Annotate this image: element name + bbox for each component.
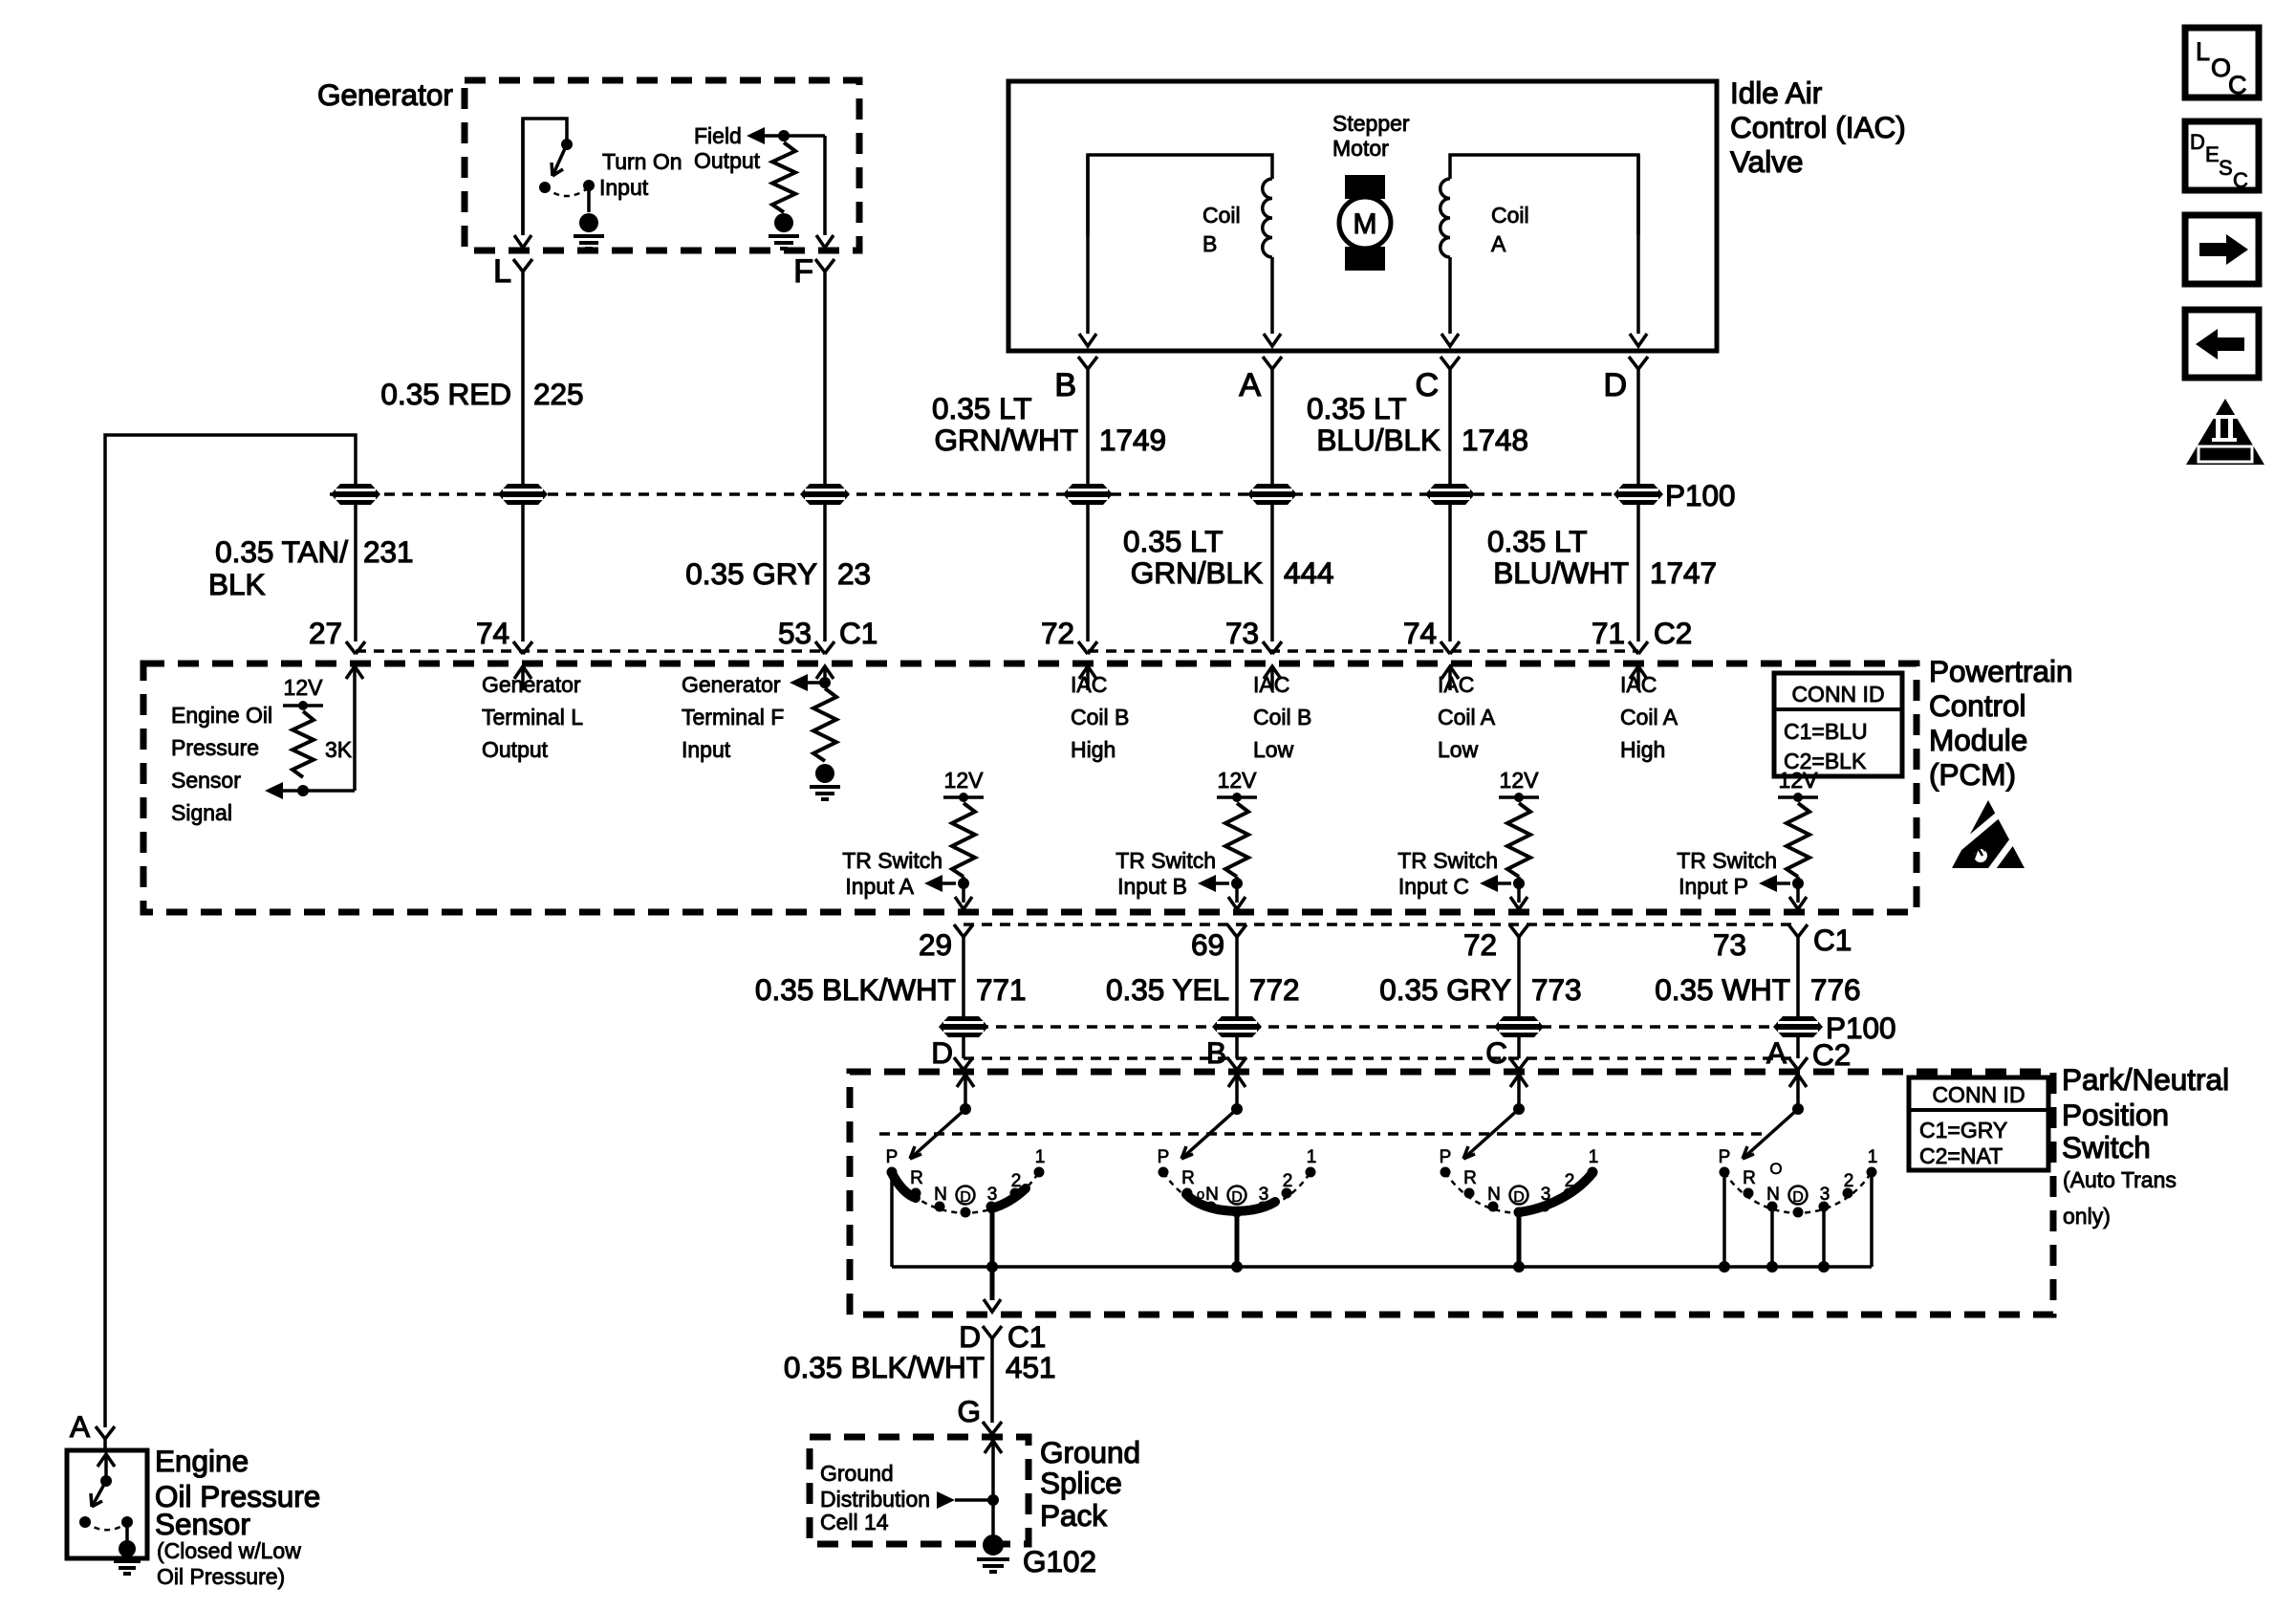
PNP connector C2 pin line (dashed) <box>964 1056 1798 1059</box>
resistor TR switch A pull-up <box>952 803 975 877</box>
svg-text:IAC: IAC <box>1071 672 1107 697</box>
node wafer A N on bus <box>1766 1261 1778 1273</box>
arrow out of PCM (TR B) <box>1228 897 1245 909</box>
svg-text:C2=NAT: C2=NAT <box>1919 1143 2003 1168</box>
svg-text:High: High <box>1620 737 1665 762</box>
svg-text:Coil: Coil <box>1202 203 1241 228</box>
arrow into PNP wafer D <box>957 1075 974 1087</box>
arrow out of PCM (TR P) <box>1789 897 1807 909</box>
svg-text:Park/Neutral: Park/Neutral <box>2062 1062 2229 1097</box>
svg-text:72: 72 <box>1041 616 1074 650</box>
wire wafer D P-contact drop <box>890 1173 894 1267</box>
svg-text:Generator: Generator <box>482 672 581 697</box>
svg-text:Signal: Signal <box>171 800 232 825</box>
svg-text:TR Switch: TR Switch <box>1677 848 1777 873</box>
pin fork PCM 27 <box>346 642 365 654</box>
resistor 3K pull-up <box>292 711 314 777</box>
svg-text:231: 231 <box>363 534 414 569</box>
svg-text:1: 1 <box>1589 1147 1599 1167</box>
svg-text:Module: Module <box>1929 723 2027 757</box>
svg-text:D: D <box>931 1035 953 1070</box>
wire 772 (PCM 69 to PNP B) <box>1235 937 1239 1058</box>
svg-text:0.35 LT: 0.35 LT <box>1123 524 1223 558</box>
svg-text:Field: Field <box>694 123 742 148</box>
svg-text:D: D <box>1231 1189 1243 1206</box>
svg-text:Input: Input <box>599 175 649 200</box>
svg-text:O: O <box>1769 1160 1782 1178</box>
svg-text:BLU/BLK: BLU/BLK <box>1316 423 1440 457</box>
wire 225 (L to PCM 74) <box>521 272 525 642</box>
TR switch input C reference arrow <box>1480 875 1498 892</box>
svg-text:C1: C1 <box>1813 923 1852 957</box>
Park/Neutral Position Switch box (dashed) <box>850 1072 2053 1315</box>
arrow coil A high to terminal D <box>1636 155 1640 334</box>
wire 771 (PCM 29 to PNP D) <box>962 937 965 1058</box>
connector P100 pass-through at GRN/BLK 444 wire <box>1247 484 1297 505</box>
svg-text:(Closed w/Low: (Closed w/Low <box>157 1538 301 1563</box>
svg-text:Stepper: Stepper <box>1332 111 1410 136</box>
generator terminal F input reference arrow <box>790 674 808 691</box>
svg-text:Powertrain: Powertrain <box>1929 654 2073 688</box>
node wafer A P on bus <box>1719 1261 1730 1273</box>
svg-text:74: 74 <box>476 616 509 650</box>
pin fork PNP D <box>954 1057 973 1070</box>
arrow into PCM pin (IAC Coil A High) <box>1630 666 1647 679</box>
svg-text:TR Switch: TR Switch <box>1116 848 1216 873</box>
engine oil pressure sensor signal reference arrow <box>265 782 283 799</box>
svg-text:Input C: Input C <box>1398 874 1469 899</box>
contacts wafer A <box>1720 1167 1877 1218</box>
arrow into PCM pin (IAC Coil B Low) <box>1264 666 1281 679</box>
icon LOC button <box>2185 28 2259 98</box>
inductor coil B <box>1088 155 1272 235</box>
svg-text:S: S <box>2219 156 2233 180</box>
svg-text:Cell 14: Cell 14 <box>820 1510 889 1534</box>
icon LOC letters <box>2196 37 2247 99</box>
12V supply rail (TR A) <box>943 795 984 799</box>
svg-text:N: N <box>934 1185 947 1205</box>
svg-text:Terminal F: Terminal F <box>682 705 784 729</box>
svg-text:IAC: IAC <box>1253 672 1289 697</box>
svg-text:Coil B: Coil B <box>1071 705 1129 729</box>
12V supply rail (TR P) <box>1778 795 1818 799</box>
svg-text:Input A: Input A <box>845 874 914 899</box>
12V supply rail (TR B) <box>1217 795 1257 799</box>
resistor TR switch P pull-up <box>1787 803 1809 877</box>
arrow out of PNP to pin D <box>990 1267 995 1300</box>
CONN ID table (PNP) <box>1909 1077 2048 1170</box>
connector P100 pass-through at WHT 776 wire <box>1773 1016 1823 1037</box>
wire wafer A 3-contact drop <box>1822 1207 1826 1267</box>
svg-text:Idle Air: Idle Air <box>1730 76 1822 110</box>
pin fork PCM 71 <box>1629 642 1648 654</box>
node sensor ground contact <box>121 1516 133 1528</box>
pin fork PCM 74 <box>513 642 532 654</box>
svg-text:Ground: Ground <box>820 1461 894 1486</box>
svg-text:12V: 12V <box>1779 768 1819 793</box>
svg-text:C2: C2 <box>1812 1037 1851 1072</box>
svg-text:12V: 12V <box>944 768 985 793</box>
wire sensor A stub <box>103 1439 107 1450</box>
svg-text:A: A <box>70 1409 90 1444</box>
svg-text:P100: P100 <box>1665 478 1736 512</box>
svg-text:Coil A: Coil A <box>1620 705 1679 729</box>
svg-text:B: B <box>1206 1035 1226 1070</box>
wire sensor ground drop <box>125 1522 129 1540</box>
switch wafer C wiper arm <box>1463 1109 1519 1159</box>
Engine Oil Pressure Sensor box <box>67 1450 147 1558</box>
connector P100 pass-through at TAN/BLK 231 wire <box>331 484 380 505</box>
svg-text:0.35 LT: 0.35 LT <box>932 391 1031 425</box>
wire 776 (PCM 73 to PNP A) <box>1796 937 1800 1058</box>
wiper contact segment wafer D (P-R) <box>892 1173 916 1198</box>
svg-text:D: D <box>1603 367 1627 403</box>
wire wafer C output drop (heavy) <box>1517 1214 1522 1267</box>
arrow coil B high to terminal B <box>1086 155 1090 334</box>
svg-text:Control (IAC): Control (IAC) <box>1730 110 1906 144</box>
arrow into PNP wafer B <box>1228 1075 1245 1087</box>
connector P100 pass-through at BLU/BLK 1748 wire <box>1425 484 1475 505</box>
contact labels wafer C <box>1440 1147 1599 1205</box>
ground (generator turn-on) <box>579 213 598 232</box>
svg-text:C: C <box>2233 168 2248 192</box>
svg-text:IAC: IAC <box>1620 672 1657 697</box>
ground distribution reference arrow <box>937 1491 955 1509</box>
wire generator internal L path <box>523 119 567 235</box>
connector P100 pass-through at BLK/WHT 771 wire <box>939 1016 988 1037</box>
circled D contact label wafer D <box>957 1186 975 1205</box>
arrow into PCM pin 27 <box>346 666 363 679</box>
switch wafer D wiper arm <box>910 1109 965 1159</box>
svg-text:Low: Low <box>1253 737 1294 762</box>
svg-text:Oil Pressure): Oil Pressure) <box>157 1564 285 1589</box>
pin fork PNP B <box>1227 1057 1246 1070</box>
icon previous arrow button <box>2185 310 2259 378</box>
svg-text:P: P <box>1719 1147 1731 1167</box>
node wafer B output on bus <box>1231 1261 1243 1273</box>
svg-text:C1=BLU: C1=BLU <box>1784 719 1868 744</box>
pin fork PNP D (output C1) <box>983 1326 1002 1338</box>
arrow coil B low to terminal A <box>1264 334 1281 346</box>
svg-text:Engine: Engine <box>155 1444 249 1478</box>
TR switch input P reference arrow <box>1759 875 1777 892</box>
node sensor contact <box>79 1516 91 1528</box>
svg-text:R: R <box>1181 1168 1195 1188</box>
svg-text:0.35 BLK/WHT: 0.35 BLK/WHT <box>784 1350 985 1384</box>
svg-text:C: C <box>1415 367 1439 403</box>
wire wafer D output drop (heavy) <box>990 1208 995 1267</box>
svg-text:444: 444 <box>1284 555 1334 590</box>
wire 231 TAN/BLK run from oil pressure sensor <box>105 435 356 1427</box>
svg-text:0.35 GRY: 0.35 GRY <box>685 556 817 591</box>
svg-text:Valve: Valve <box>1730 144 1803 179</box>
svg-text:High: High <box>1071 737 1116 762</box>
svg-text:0.35 TAN/: 0.35 TAN/ <box>215 534 348 569</box>
wiper contact segment wafer D (3-2) <box>991 1188 1026 1208</box>
svg-text:3: 3 <box>987 1185 998 1205</box>
node TR P junction <box>1792 878 1804 889</box>
connector P100 pass-through at GRY 23 wire <box>800 484 850 505</box>
wire TR P junction <box>1796 877 1800 903</box>
svg-text:0.35 WHT: 0.35 WHT <box>1655 972 1790 1007</box>
svg-text:3K: 3K <box>325 737 353 762</box>
node generator turn-on contact <box>539 182 551 193</box>
wire TR B junction <box>1235 877 1239 903</box>
svg-text:CONN ID: CONN ID <box>1791 682 1884 707</box>
wire wafer A N-contact drop <box>1770 1207 1774 1267</box>
ground (oil pressure sensor) <box>119 1540 136 1557</box>
wire into splice pack <box>990 1434 994 1441</box>
node wafer A 3 on bus <box>1818 1261 1830 1273</box>
svg-text:Control: Control <box>1929 688 2026 723</box>
terminal B fork <box>1078 357 1097 369</box>
contact arc wafer B (dashed) <box>1163 1172 1310 1213</box>
svg-text:BLU/WHT: BLU/WHT <box>1493 555 1629 590</box>
svg-text:Turn On: Turn On <box>602 149 682 174</box>
svg-text:Splice: Splice <box>1040 1466 1122 1500</box>
svg-text:N: N <box>1766 1185 1780 1205</box>
svg-text:C: C <box>2228 71 2247 99</box>
Powertrain Control Module box (dashed) <box>143 664 1917 912</box>
svg-text:Output: Output <box>694 148 761 173</box>
wiper contact segment wafer B (R-3) <box>1186 1194 1275 1211</box>
arrow coil A low to terminal C <box>1441 334 1459 346</box>
svg-text:D: D <box>959 1319 981 1354</box>
connector P100 dashed line (row 2) <box>942 1025 1818 1028</box>
terminal D fork <box>1629 357 1648 369</box>
svg-text:(PCM): (PCM) <box>1929 757 2016 792</box>
wire 451 (PNP D to ground splice) <box>990 1338 994 1423</box>
svg-text:225: 225 <box>533 377 584 411</box>
svg-text:Sensor: Sensor <box>155 1507 250 1541</box>
connector P100 dashed line (row 1) <box>330 492 1661 495</box>
ground G102 <box>983 1534 1004 1556</box>
svg-text:Input B: Input B <box>1117 874 1187 899</box>
svg-text:B: B <box>1054 367 1076 403</box>
node wafer A pivot <box>1792 1103 1804 1115</box>
wire generator internal F drop <box>823 136 827 235</box>
svg-text:0.35 GRY: 0.35 GRY <box>1379 972 1511 1007</box>
CONN ID table (PCM) <box>1774 673 1902 776</box>
svg-text:Pressure: Pressure <box>171 735 259 760</box>
svg-text:P: P <box>1440 1147 1452 1167</box>
arrow into PCM pin (IAC Coil A Low) <box>1441 666 1459 679</box>
svg-text:Coil: Coil <box>1491 203 1529 228</box>
node generator turn-on ground contact <box>583 180 595 191</box>
svg-text:0.35 LT: 0.35 LT <box>1487 524 1587 558</box>
wire field output <box>764 134 825 138</box>
svg-text:Terminal L: Terminal L <box>482 705 583 729</box>
terminal C fork <box>1440 357 1460 369</box>
PCM connector C1 pin line (dashed) <box>356 649 825 652</box>
svg-text:2: 2 <box>1844 1171 1854 1191</box>
connector P100 pass-through at BLU/WHT 1747 wire <box>1614 484 1663 505</box>
wire to generator turn-on ground <box>587 185 591 212</box>
svg-text:Low: Low <box>1438 737 1479 762</box>
circled D contact label wafer A <box>1789 1186 1808 1205</box>
svg-text:Engine Oil: Engine Oil <box>171 703 272 728</box>
icon next arrow button <box>2185 215 2259 284</box>
switch oil pressure arm <box>92 1481 106 1507</box>
svg-text:N: N <box>1487 1185 1501 1205</box>
switch generator turn-on dashed throw arc <box>545 187 589 196</box>
svg-text:772: 772 <box>1249 972 1300 1007</box>
circled D contact label wafer C <box>1510 1186 1528 1205</box>
arrow out of PCM (TR C) <box>1510 897 1527 909</box>
wiper contact segment wafer C (D-1) <box>1519 1173 1592 1212</box>
node wafer D pivot <box>960 1103 971 1115</box>
switch generator turn-on arm <box>552 144 567 176</box>
svg-text:12V: 12V <box>1500 768 1540 793</box>
terminal L connector fork <box>513 259 532 272</box>
svg-text:2: 2 <box>1283 1171 1293 1191</box>
wire 444 (A to PCM 73) <box>1270 369 1274 642</box>
pin fork PCM 29 (bottom) <box>954 925 973 937</box>
svg-text:TR Switch: TR Switch <box>842 848 942 873</box>
svg-text:Generator: Generator <box>317 77 453 112</box>
terminal A fork <box>1263 357 1282 369</box>
svg-text:1: 1 <box>1868 1147 1878 1167</box>
connector P100 pass-through at YEL 772 wire <box>1212 1016 1262 1037</box>
mechanical coupling dashed line (switch gangs) <box>879 1132 1762 1135</box>
svg-text:72: 72 <box>1463 927 1497 962</box>
wire F input branch <box>808 681 825 685</box>
svg-text:23: 23 <box>837 556 871 591</box>
TR switch input A reference arrow <box>924 875 942 892</box>
node TR B junction <box>1231 878 1243 889</box>
svg-text:Input: Input <box>682 737 731 762</box>
svg-text:3: 3 <box>1820 1185 1830 1205</box>
svg-text:C1: C1 <box>1007 1319 1046 1354</box>
pin fork PCM 73 <box>1263 642 1282 654</box>
node TR A junction <box>958 878 969 889</box>
12V supply rail (oil pressure) <box>283 704 323 707</box>
svg-text:776: 776 <box>1810 972 1861 1007</box>
svg-text:GRN/WHT: GRN/WHT <box>935 423 1078 457</box>
svg-text:R: R <box>1463 1168 1477 1188</box>
svg-text:0.35 LT: 0.35 LT <box>1307 391 1406 425</box>
arrow out of PCM (TR A) <box>955 897 972 909</box>
svg-text:74: 74 <box>1403 616 1437 650</box>
field output reference arrow <box>747 127 765 144</box>
svg-text:12V: 12V <box>1218 768 1258 793</box>
svg-text:Pack: Pack <box>1040 1498 1107 1533</box>
svg-text:Motor: Motor <box>1332 136 1389 161</box>
pin fork PCM 53 <box>815 642 834 654</box>
contacts wafer D <box>887 1167 1045 1218</box>
wire to engine oil pressure sense node <box>271 789 355 793</box>
pin fork PCM 72 <box>1078 642 1097 654</box>
arrow into terminal F <box>816 235 834 248</box>
svg-text:27: 27 <box>309 616 342 650</box>
svg-text:1: 1 <box>1035 1147 1046 1167</box>
resistor TR switch C pull-up <box>1507 803 1530 877</box>
wire TR A junction <box>962 877 965 903</box>
svg-text:Generator: Generator <box>682 672 781 697</box>
svg-text:D: D <box>2190 130 2205 154</box>
svg-text:Distribution: Distribution <box>820 1487 930 1512</box>
svg-text:1: 1 <box>1307 1147 1317 1167</box>
IAC valve box <box>1008 81 1717 351</box>
svg-text:53: 53 <box>778 616 812 650</box>
circled D contact label wafer B <box>1228 1186 1246 1205</box>
svg-text:only): only) <box>2063 1204 2111 1229</box>
pin fork G (splice pack) <box>983 1422 1002 1434</box>
contact arc wafer A (dashed) <box>1724 1172 1872 1213</box>
svg-text:73: 73 <box>1225 616 1259 650</box>
terminal F connector fork <box>815 259 834 272</box>
node wafer B pivot <box>1231 1103 1243 1115</box>
pin fork PCM 73 (bottom) <box>1788 925 1808 937</box>
svg-text:Coil A: Coil A <box>1438 705 1496 729</box>
arrow into PNP wafer C <box>1510 1075 1527 1087</box>
node F input junction <box>819 677 831 688</box>
svg-text:Ground: Ground <box>1040 1435 1140 1469</box>
svg-text:R: R <box>1743 1168 1756 1188</box>
svg-text:1747: 1747 <box>1650 555 1717 590</box>
svg-text:BLK: BLK <box>208 567 266 601</box>
wire 23 (F to PCM 53) <box>823 272 827 642</box>
connector P100 pass-through at RED 225 wire <box>498 484 548 505</box>
svg-text:P: P <box>1158 1147 1170 1167</box>
contacts wafer B <box>1159 1167 1316 1218</box>
svg-text:C1=GRY: C1=GRY <box>1919 1118 2007 1142</box>
node sensor switch pivot <box>100 1475 112 1487</box>
node 3K pulldown junction <box>297 785 309 796</box>
resistor generator field winding <box>772 142 795 212</box>
TR switch input B reference arrow <box>1198 875 1216 892</box>
svg-text:1748: 1748 <box>1462 423 1528 457</box>
stepper motor M symbol <box>1345 175 1385 199</box>
svg-text:A: A <box>1239 367 1261 403</box>
svg-text:Output: Output <box>482 737 549 762</box>
svg-text:G102: G102 <box>1023 1544 1096 1578</box>
resistor PCM field driver <box>813 688 836 761</box>
svg-text:TR Switch: TR Switch <box>1397 848 1498 873</box>
wire wafer B output drop (heavy) <box>1235 1214 1240 1267</box>
icon DESC button <box>2185 121 2259 190</box>
svg-text:CONN ID: CONN ID <box>1932 1082 2025 1107</box>
svg-text:R: R <box>910 1168 923 1188</box>
pin fork PNP C <box>1509 1057 1528 1070</box>
wire common ground bus (PNP) <box>892 1265 1872 1269</box>
pin fork PCM 72 (bottom) <box>1509 925 1528 937</box>
svg-text:12V: 12V <box>284 675 324 700</box>
wire wafer A P-contact drop <box>1722 1172 1726 1267</box>
node generator switch pivot <box>561 139 573 150</box>
svg-text:1749: 1749 <box>1099 423 1166 457</box>
contact labels wafer D <box>886 1147 1046 1205</box>
svg-text:73: 73 <box>1713 927 1746 962</box>
svg-text:69: 69 <box>1191 927 1224 962</box>
svg-text:L: L <box>493 253 511 290</box>
svg-text:Coil B: Coil B <box>1253 705 1311 729</box>
pin fork PCM 69 (bottom) <box>1227 925 1246 937</box>
PCM bottom connector C1 pin line (dashed) <box>964 923 1798 925</box>
svg-text:0.35 YEL: 0.35 YEL <box>1106 972 1229 1007</box>
wire ground distribution branch <box>955 1498 993 1502</box>
pin fork PNP A <box>1788 1057 1808 1070</box>
wire 1747 (D to PCM 71) <box>1636 369 1640 642</box>
wire TR C junction <box>1517 877 1521 903</box>
svg-text:G: G <box>957 1394 981 1428</box>
svg-text:Switch: Switch <box>2062 1130 2151 1164</box>
svg-text:0.35 RED: 0.35 RED <box>380 377 511 411</box>
wire wafer A 1-contact drop <box>1870 1172 1874 1267</box>
arrow into splice pack <box>985 1441 1002 1453</box>
switch wafer B wiper arm <box>1181 1109 1237 1159</box>
arrow into PCM pin 53 <box>816 666 834 679</box>
